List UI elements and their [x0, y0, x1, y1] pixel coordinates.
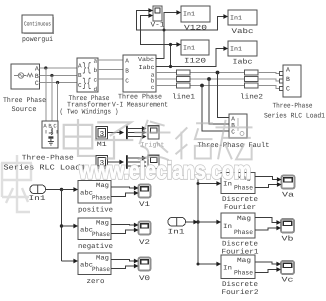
svg-text:A: A [125, 58, 129, 65]
svg-text:positive: positive [78, 206, 113, 215]
svg-text:M1: M1 [97, 141, 107, 148]
svg-text:Discrete: Discrete [222, 195, 258, 204]
svg-text:V1: V1 [139, 201, 150, 209]
svg-text:In1: In1 [230, 46, 242, 53]
svg-text:Mag: Mag [96, 220, 109, 227]
svg-text:a: a [93, 58, 97, 65]
svg-text:Fourier2: Fourier2 [222, 288, 259, 297]
svg-text:V0: V0 [139, 275, 150, 283]
svg-text:Series RLC Load1: Series RLC Load1 [264, 112, 325, 121]
svg-text:Three Phase: Three Phase [118, 93, 162, 102]
svg-text:In1: In1 [230, 15, 242, 22]
svg-text:C: C [35, 80, 39, 87]
svg-text:Discrete: Discrete [222, 280, 258, 289]
svg-text:Mag: Mag [237, 257, 251, 264]
svg-text:powergui: powergui [22, 35, 53, 44]
svg-text:Iabc: Iabc [139, 64, 155, 71]
svg-text:line2: line2 [240, 93, 263, 102]
svg-text:V120: V120 [184, 25, 207, 33]
svg-text:Phase: Phase [234, 270, 253, 277]
svg-text:In1: In1 [168, 229, 185, 237]
svg-text:}{: }{ [82, 77, 91, 91]
svg-text:I120: I120 [184, 58, 206, 66]
svg-text:Vabc: Vabc [138, 56, 154, 63]
svg-text:Iabc: Iabc [233, 58, 253, 67]
svg-text:B: B [125, 68, 129, 75]
svg-text:Phase: Phase [234, 229, 253, 236]
svg-text:Mag: Mag [237, 215, 251, 222]
svg-text:V2: V2 [139, 239, 150, 247]
svg-text:d: d [93, 86, 97, 93]
svg-text:V-I Measurement: V-I Measurement [112, 102, 168, 110]
svg-text:In: In [223, 223, 232, 230]
svg-text:A: A [286, 67, 290, 74]
svg-text:Source: Source [12, 106, 37, 114]
svg-text:Phase: Phase [92, 231, 110, 238]
svg-text:C: C [231, 129, 235, 136]
svg-text:In: In [223, 264, 232, 271]
svg-text:Phase: Phase [234, 185, 253, 192]
svg-text:Three-Phase: Three-Phase [22, 154, 74, 163]
svg-text:In1: In1 [183, 11, 195, 18]
svg-text:B: B [286, 76, 290, 83]
svg-text:c: c [93, 77, 97, 84]
svg-text:Mag: Mag [96, 255, 109, 262]
svg-text:}{: }{ [82, 61, 91, 75]
svg-text:Vabc: Vabc [232, 27, 254, 36]
svg-text:Continuous: Continuous [24, 21, 51, 28]
svg-text:Discrete: Discrete [222, 240, 258, 249]
svg-text:negative: negative [78, 242, 113, 251]
svg-text:B: B [35, 73, 39, 80]
svg-text:C: C [125, 78, 129, 85]
svg-text:www.elecians.com: www.elecians.com [78, 158, 251, 185]
svg-text:In1: In1 [29, 195, 46, 203]
svg-text:zero: zero [87, 278, 105, 286]
svg-text:c: c [151, 84, 155, 91]
svg-text:In1: In1 [183, 45, 195, 52]
svg-text:Fourier: Fourier [224, 203, 256, 212]
svg-text:Phase: Phase [92, 266, 110, 273]
svg-text:C: C [286, 86, 290, 93]
svg-text:Three-Phase: Three-Phase [273, 102, 313, 111]
svg-text:Three Phase: Three Phase [3, 96, 46, 105]
svg-text:Va: Va [282, 192, 294, 200]
svg-text:Vc: Vc [282, 277, 294, 285]
svg-text:A: A [35, 66, 39, 73]
svg-text:( Two Windings ): ( Two Windings ) [60, 108, 119, 117]
svg-text:b: b [93, 67, 97, 74]
svg-text:V-1: V-1 [151, 22, 165, 30]
svg-text:Vb: Vb [282, 235, 294, 244]
svg-text:line1: line1 [172, 93, 195, 102]
svg-text:Phase: Phase [92, 195, 110, 202]
svg-text:3: 3 [100, 130, 105, 139]
